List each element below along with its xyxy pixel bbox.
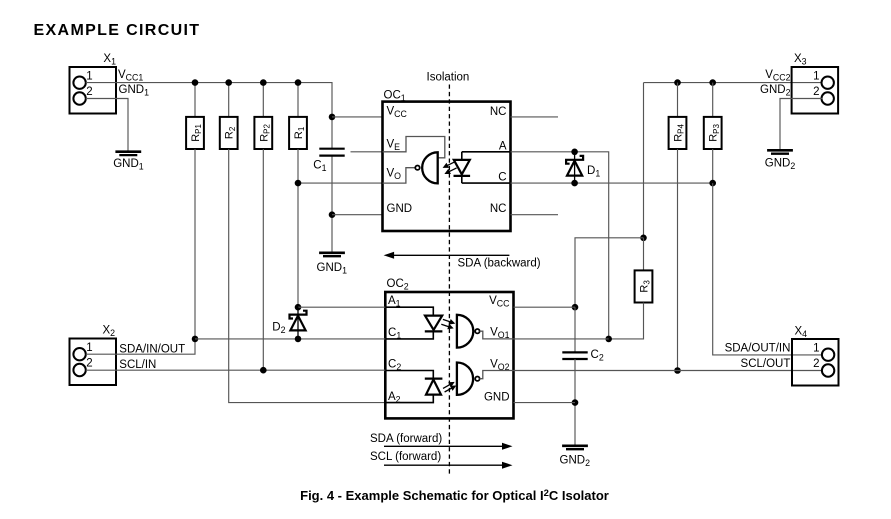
- junction R1 / VO line: [295, 180, 302, 187]
- capacitor C1 plate top: [319, 148, 344, 150]
- wire VCC1 rail to RP1 top: [194, 83, 196, 117]
- diode D1 stem wire: [574, 152, 576, 184]
- wire C2 bottom lead to GND2: [574, 359, 576, 446]
- wire RP3 top: [712, 83, 714, 117]
- OC2 LED2 cathode bar: [425, 378, 443, 380]
- SDA forward arrow head: [502, 443, 513, 450]
- SDA forward arrow shaft: [384, 445, 504, 447]
- svg-text:1: 1: [86, 342, 92, 354]
- svg-text:NC: NC: [490, 106, 507, 118]
- resistor RP2 label: [258, 123, 271, 141]
- isolation dashed line: [448, 85, 450, 477]
- wire OC1 internal VE path: [383, 137, 445, 158]
- wire X2 pin1 SDA to step: [86, 339, 195, 354]
- OC2 channel2 light arrow 1 shaft: [443, 383, 452, 388]
- svg-text:1: 1: [86, 70, 92, 82]
- resistor R3 body: [635, 270, 653, 302]
- wire C1 bottom to OC1 GND node: [331, 156, 333, 253]
- wire OC1 internal A horizontal: [462, 151, 511, 153]
- junction VCC1 rail / RP2: [260, 79, 267, 86]
- junction RP3 / SDA line: [709, 180, 716, 187]
- wire R3 bottom lead: [609, 303, 644, 339]
- SDA backward arrow shaft: [393, 254, 510, 256]
- resistor R1 label: [293, 126, 306, 139]
- resistor R1 body: [289, 117, 307, 149]
- OC2 channel1 light arrow 2 shaft: [441, 324, 451, 327]
- wire VCC1 rail to R1 top: [297, 83, 299, 117]
- capacitor C2 plate bottom: [562, 358, 587, 360]
- wire R3 top lead: [643, 238, 645, 271]
- wire VCC1 rail to RP2 top: [262, 83, 264, 117]
- junction D2 top / A1 line / R1 column: [295, 304, 302, 311]
- junction D1 / C line: [571, 180, 578, 187]
- OC2 gate 1 bubble: [475, 329, 479, 333]
- connector X3 pin 1 circle: [822, 77, 834, 89]
- SCL forward arrow head: [502, 462, 513, 469]
- OC1 output gate (detector): [422, 152, 438, 183]
- op-amp U? none — optocoupler OC1 body: [383, 102, 511, 231]
- wire OC2 internal A2 path: [385, 395, 433, 403]
- svg-text:2: 2: [813, 358, 819, 370]
- wire RP2 bottom to SCL-in line: [262, 149, 264, 370]
- junction C1 column / OC1 VCC pin: [329, 114, 336, 121]
- wire SDA-out drop and run to X4 pin1: [713, 183, 822, 355]
- svg-text:A: A: [499, 140, 507, 152]
- svg-text:GND: GND: [387, 203, 413, 215]
- svg-text:NC: NC: [490, 203, 507, 215]
- wire VCC1 rail from X1 pin 1 to C1 column: [86, 83, 332, 149]
- svg-text:GND: GND: [484, 391, 510, 403]
- OC2 channel1 light arrow 1 shaft: [443, 319, 453, 322]
- OC2 channel2 light arrow 2 head: [450, 386, 457, 391]
- wire OC1 VO pin to R1: [298, 182, 383, 184]
- resistor RP2 body: [254, 117, 272, 149]
- OC2 detector gate 2: [457, 363, 473, 395]
- wire VCC2 branch to OC2 VCC: [575, 238, 644, 307]
- connector X3 box: [792, 67, 839, 114]
- junction VCC2 rail / RP4: [674, 79, 681, 86]
- OC1 light arrow 1 shaft: [445, 162, 455, 167]
- svg-text:SCL/IN: SCL/IN: [119, 359, 156, 371]
- junction VCC1 rail / R2: [225, 79, 232, 86]
- OC2 channel2 light arrow 2 shaft: [445, 387, 454, 392]
- wire X1 pin 2 to GND1: [86, 99, 128, 152]
- OC2 gate 2 bubble: [475, 377, 479, 381]
- resistor R2 body: [220, 117, 238, 149]
- wire VO1 line from OC2: [514, 338, 609, 340]
- connector X1 pin 1 circle: [73, 77, 85, 89]
- wire RP4 bottom to SCL-out line: [677, 149, 679, 371]
- wire R1 bottom through VO node to D2: [297, 149, 299, 307]
- resistor RP3 label: [708, 123, 721, 141]
- OC1 output gate bubble: [415, 166, 419, 170]
- junction VCC2 rail / RP3: [709, 79, 716, 86]
- svg-text:1: 1: [813, 342, 819, 354]
- junction RP1 / SDA-in line: [192, 336, 199, 343]
- OC1 photodiode (LED) triangle: [454, 160, 470, 174]
- resistor RP4 label: [673, 123, 686, 141]
- resistor R2 label: [224, 126, 237, 139]
- ground GND2 below X3 bar 1: [767, 149, 793, 152]
- wire OC2 VCC pin: [514, 306, 576, 308]
- wire OC2 internal C1 path: [385, 331, 433, 339]
- diode D2 triangle: [290, 316, 305, 331]
- svg-text:Isolation: Isolation: [427, 71, 470, 83]
- svg-text:SDA (backward): SDA (backward): [458, 258, 541, 270]
- svg-text:C: C: [498, 172, 506, 184]
- OC2 detector gate 1: [457, 315, 473, 348]
- junction RP2 / SCL-in line: [260, 367, 267, 374]
- capacitor C1 plate bottom: [319, 155, 344, 157]
- wire RP1 bottom to SDA-in node: [194, 149, 196, 339]
- wire RP4 top: [677, 83, 679, 117]
- junction C2 column / OC2 VCC pin: [572, 304, 579, 311]
- OC2 LED1 triangle (down): [425, 316, 442, 330]
- connector X3 pin 2 circle: [822, 92, 834, 104]
- ground GND1 below OC1 bar 1: [319, 251, 345, 254]
- wire OC1 A line to feedback column: [511, 152, 609, 339]
- resistor RP3 body: [704, 117, 722, 149]
- OC1 light arrow 2 head: [444, 169, 451, 174]
- wire R2 bottom to A2 line: [229, 149, 386, 403]
- junction D2 bottom / SDA-in line: [295, 336, 302, 343]
- junction RP4 / SCL-out line: [674, 367, 681, 374]
- diode D2 stem wire: [297, 307, 299, 339]
- wire OC2 internal VO1 path: [480, 331, 514, 339]
- wire X2 pin2 SCL to OC2 C2: [86, 369, 386, 371]
- wire SCL-out line OC2 VO2 to X4 pin2: [514, 370, 823, 372]
- OC2 channel2 light arrow 1 head: [448, 382, 455, 387]
- OC2 channel1 light arrow 2 head: [447, 324, 453, 330]
- capacitor C2 plate top: [562, 351, 587, 353]
- ground GND2 below X3 bar 2: [771, 153, 789, 155]
- wire VCC1 rail to R2 top: [228, 83, 230, 117]
- connector X2 pin 1 circle: [73, 348, 85, 360]
- OC1 light arrow 1 head: [443, 163, 450, 168]
- resistor RP4 body: [669, 117, 687, 149]
- diode D1 triangle: [567, 161, 582, 176]
- wire SDA-in line to OC2 C1: [195, 338, 385, 340]
- connector X4 box: [792, 339, 839, 386]
- SCL forward arrow shaft: [384, 464, 504, 466]
- OC2 LED2 triangle (up): [426, 380, 441, 395]
- junction node VCC2 / R3 top: [640, 235, 647, 242]
- SDA backward arrow head: [384, 252, 395, 259]
- junction D1 anode-top / A line: [571, 149, 578, 156]
- wire OC1 NC top stub: [511, 116, 559, 118]
- junction VCC1 rail / R1: [295, 79, 302, 86]
- svg-text:2: 2: [86, 358, 92, 370]
- svg-text:SDA/OUT/IN: SDA/OUT/IN: [725, 343, 791, 355]
- svg-text:SDA (forward): SDA (forward): [370, 433, 442, 445]
- ground GND1 below OC1 bar 2: [323, 255, 341, 257]
- wire X3 pin2 to GND2: [780, 99, 822, 151]
- OC2 channel1 light arrow 1 head: [449, 319, 455, 325]
- optocoupler OC2 body: [385, 292, 513, 418]
- wire OC1 internal cathode drop: [461, 176, 463, 183]
- svg-text:2: 2: [813, 86, 819, 98]
- diode D2 cathode bar (zener): [290, 311, 307, 319]
- wire OC1 C line (SDA bus): [511, 182, 713, 184]
- svg-text:EXAMPLE CIRCUIT: EXAMPLE CIRCUIT: [34, 22, 201, 39]
- wire VCC2 rail: [644, 82, 823, 84]
- wire RP3 bottom to SDA line: [712, 149, 714, 183]
- wire VCC2 rail drop at R3 column: [643, 83, 645, 238]
- connector X2 pin 2 circle: [73, 364, 85, 376]
- wire OC1 NC bottom stub: [511, 214, 559, 216]
- wire OC1 internal C horizontal: [462, 182, 511, 184]
- wire OC2 internal A1 path: [385, 307, 433, 315]
- svg-text:2: 2: [86, 86, 92, 98]
- OC2 LED1 cathode bar: [425, 330, 443, 332]
- diode D1 cathode bar (zener): [566, 156, 583, 164]
- resistor RP1 body: [186, 117, 204, 149]
- junction VCC1 rail / RP1: [192, 79, 199, 86]
- connector X4 pin 2 circle: [822, 364, 834, 376]
- ground GND1 below X1 bar 2: [119, 154, 137, 156]
- ground GND2 below C2 bar 2: [566, 448, 584, 450]
- wire A1 line from D2 to OC2: [298, 306, 385, 308]
- ground GND2 below C2 bar 1: [562, 444, 588, 447]
- connector X1 box: [70, 67, 117, 114]
- wire OC2 internal VO2 path: [480, 371, 514, 379]
- svg-text:1: 1: [813, 70, 819, 82]
- wire OC1 internal anode drop: [461, 152, 463, 160]
- junction R3 line / VO1 / feedback column: [605, 336, 612, 343]
- ground GND1 below X1 bar 1: [115, 150, 141, 153]
- wire C2 top lead: [574, 307, 576, 352]
- wire OC1 GND pin: [332, 214, 383, 216]
- connector X2 box: [70, 339, 117, 386]
- OC1 light arrow 2 shaft: [447, 168, 457, 173]
- resistor RP1 label: [190, 123, 203, 141]
- wire OC1 internal VO path: [383, 168, 416, 183]
- resistor R3 label: [639, 280, 652, 293]
- junction C1 column / OC1 GND pin: [329, 211, 336, 218]
- svg-text:SCL/OUT: SCL/OUT: [741, 358, 791, 370]
- svg-text:Fig. 4 - Example Schematic for: Fig. 4 - Example Schematic for Optical I…: [300, 488, 609, 503]
- wire OC2 GND pin: [514, 402, 576, 404]
- wire OC1 VCC pin: [332, 116, 383, 118]
- svg-text:SCL (forward): SCL (forward): [370, 451, 441, 463]
- OC1 photodiode cathode bar: [454, 175, 471, 177]
- connector X1 pin 2 circle: [73, 92, 85, 104]
- junction C2 column / OC2 GND pin: [572, 399, 579, 406]
- connector X4 pin 1 circle: [822, 349, 834, 361]
- wire OC1 VE stub: [351, 151, 383, 153]
- svg-text:SDA/IN/OUT: SDA/IN/OUT: [119, 343, 185, 355]
- wire OC2 internal C2 path: [385, 371, 433, 379]
